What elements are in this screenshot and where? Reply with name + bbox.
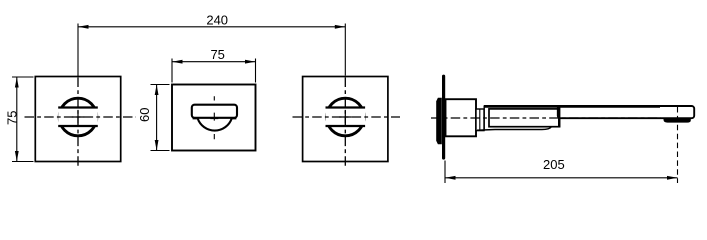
arrowhead 60 bottom [155,140,159,151]
arrowhead left75 bottom [15,151,19,162]
centerline vertical middle plate (dash segments) [213,96,215,139]
center cross right handle [339,111,351,123]
right handle grip band [326,108,366,127]
center cross left handle [72,111,84,123]
side view: neck ring [476,109,484,131]
side view: spout blade thin bar [558,106,694,118]
arrowhead 205 left [445,176,456,180]
side view: aerator under tip (dark) [664,118,691,122]
svg-text:240: 240 [206,12,228,27]
side view: spout sleeve [489,109,560,127]
side view: wall flange (dark) [436,98,442,144]
centerline vertical left square [77,78,79,167]
spout wall plate (middle) [172,85,256,151]
wire extension line top of left 75 [12,76,34,78]
wire extension line right of 240 [344,24,346,76]
side view: seam between sleeve and blade [558,107,560,127]
right handle grip top chord [326,106,366,108]
right handle grip bottom chord [326,125,366,127]
wire extension line right of 205 (dashed) [677,107,679,183]
svg-text:60: 60 [137,108,152,122]
side view: spout left vertical at body [483,105,485,130]
dimension 75 top (spout plate width) [172,59,256,83]
arrowhead 60 top [155,85,159,96]
right handle circle [327,98,365,136]
wire dimension line 60 [156,85,158,151]
centerline horizontal right square [293,116,401,118]
wire extension line right of 75 [255,59,257,83]
side view: centerline [431,117,661,119]
arrowhead left75 top [15,77,19,88]
dimension 75 left (escutcheon height) [12,77,34,162]
side view: valve body [446,99,477,136]
wire extension line top of 60 [151,84,170,86]
left handle circle [59,98,97,136]
wire dimension line 240 [78,26,345,28]
svg-text:75: 75 [210,47,224,62]
left handle grip bottom chord [58,125,98,127]
side view: escutcheon plate edge (dark bar) [442,75,445,160]
wire extension line left of 75 [171,59,173,83]
wire dimension line left 75 [16,77,18,162]
wire dimension line 205 [445,177,678,179]
centerline horizontal left square [25,116,137,118]
side view: under cover line [477,127,551,130]
wire extension line bottom of left 75 [12,161,34,163]
left escutcheon square plate [35,77,120,162]
spout face rounded rectangle [192,105,237,118]
left handle grip top chord [58,106,98,108]
dimension 240 [78,24,345,77]
side view: neck ring inner line [479,109,481,131]
wire extension line left of 240 [77,24,79,77]
left handle grip band [58,108,98,127]
arrowhead 240 right [335,25,346,29]
wire dimension line 75 [172,61,256,63]
centerline vertical right square [344,78,346,167]
side view: spout blade top line [484,105,660,108]
arrowhead 240 left [78,25,89,29]
wire extension line left of 205 (solid) [444,161,446,184]
centerline horizontal middle plate (dash segments) [193,118,237,120]
svg-text:205: 205 [543,157,565,172]
right escutcheon square plate [303,77,388,162]
arrowhead 75 right [245,60,256,64]
arrowhead 75 left [172,60,183,64]
spout lower arc [198,118,232,130]
svg-text:75: 75 [4,111,19,125]
dimension 60 (spout plate height) [151,85,170,151]
arrowhead 205 right [667,176,678,180]
wire extension line bottom of 60 [151,150,170,152]
